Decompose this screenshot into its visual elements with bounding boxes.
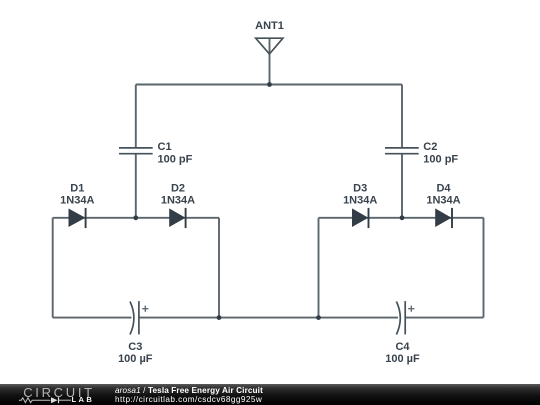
svg-text:100 pF: 100 pF bbox=[423, 153, 458, 165]
svg-text:D1: D1 bbox=[70, 182, 84, 194]
svg-text:1N34A: 1N34A bbox=[343, 194, 377, 206]
svg-text:1N34A: 1N34A bbox=[60, 194, 94, 206]
svg-text:100 µF: 100 µF bbox=[385, 353, 420, 365]
svg-text:C3: C3 bbox=[128, 341, 142, 353]
svg-text:D3: D3 bbox=[353, 182, 367, 194]
svg-text:C4: C4 bbox=[395, 341, 410, 353]
svg-text:C2: C2 bbox=[423, 141, 437, 153]
svg-text:100 µF: 100 µF bbox=[118, 353, 153, 365]
svg-text:D4: D4 bbox=[436, 182, 451, 194]
svg-text:ANT1: ANT1 bbox=[255, 20, 284, 32]
svg-text:C1: C1 bbox=[158, 141, 172, 153]
svg-text:1N34A: 1N34A bbox=[426, 194, 460, 206]
svg-text:1N34A: 1N34A bbox=[161, 194, 195, 206]
svg-text:100 pF: 100 pF bbox=[158, 153, 193, 165]
svg-text:D2: D2 bbox=[171, 182, 185, 194]
